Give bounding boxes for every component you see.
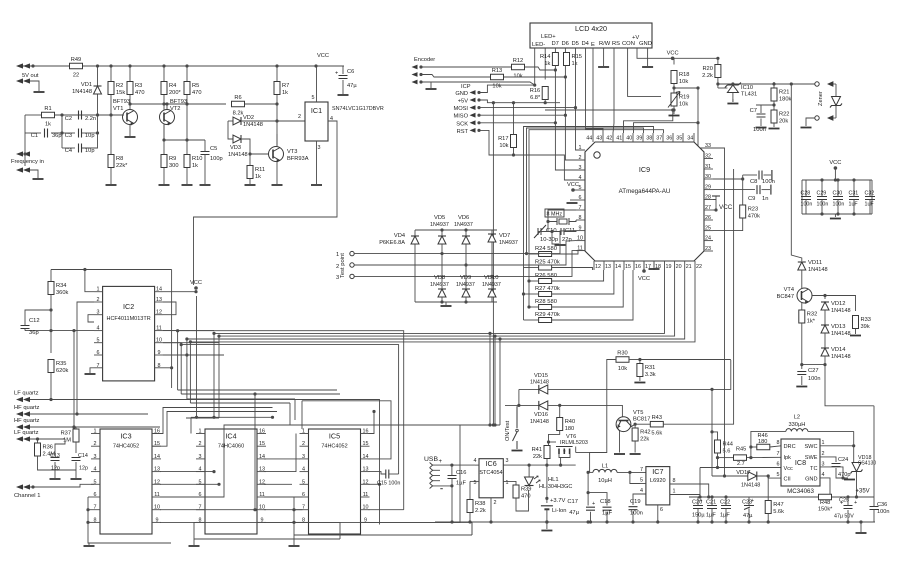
svg-text:1: 1 [822,440,825,446]
svg-text:SWE: SWE [805,455,818,461]
resistor R2 [108,82,125,97]
resistor R38 [467,500,486,515]
wire [82,132,98,134]
wire switch col top [518,389,520,405]
wire pin17 [643,261,645,271]
wire c11 [564,230,576,233]
svg-text:R33: R33 [861,317,871,323]
wire LED+ [544,48,546,80]
svg-text:VD5: VD5 [434,215,445,221]
svg-text:VD8: VD8 [434,275,445,281]
bus vert A [177,331,179,390]
ground [649,268,660,270]
terminal lower arrows [16,78,30,83]
junction [772,82,775,85]
svg-text:Frequency in: Frequency in [11,159,44,165]
svg-text:5: 5 [302,479,305,485]
svg-text:R34: R34 [56,283,66,289]
svg-text:1N4148: 1N4148 [741,483,760,489]
svg-text:7: 7 [640,467,643,473]
junction [710,430,713,433]
resistor R41 [532,446,550,461]
wire diode bottom bus [415,301,497,303]
wire bank top [802,179,872,181]
svg-text:VD14: VD14 [831,347,846,353]
svg-text:C8: C8 [750,179,757,185]
svg-text:38: 38 [646,136,652,142]
svg-text:R/W: R/W [599,41,611,47]
svg-text:C21: C21 [706,500,716,506]
svg-text:R48: R48 [820,500,830,506]
svg-text:22k: 22k [533,454,542,460]
svg-text:8: 8 [673,478,676,484]
svg-text:470: 470 [135,90,145,96]
svg-text:23: 23 [705,246,711,252]
wire [764,174,772,176]
svg-text:32: 32 [705,154,711,160]
junctions [716,456,719,469]
junction [696,121,699,124]
svg-text:D6: D6 [562,41,569,47]
wire mosfet source [560,458,562,466]
svg-text:+5V: +5V [458,99,468,105]
svg-text:35: 35 [676,136,682,142]
svg-text:9: 9 [579,226,582,232]
capacitor C3 [79,129,82,138]
svg-text:3: 3 [199,454,202,460]
wire [801,303,803,310]
junctions [749,445,752,459]
wire E col [592,48,594,133]
svg-text:1N4148: 1N4148 [808,267,828,273]
wire pin11 to bus [163,330,214,332]
svg-text:IC7: IC7 [652,467,663,476]
svg-text:C3: C3 [65,133,72,139]
wire [717,78,719,89]
wire [853,431,855,445]
ICP pin MOSI [470,105,481,110]
wire [590,512,592,522]
svg-text:22: 22 [696,264,702,270]
svg-text:4: 4 [640,488,643,494]
resistor R15 [564,53,582,68]
wire ladder busB [523,268,525,321]
junctions rail [450,520,548,523]
bus vert B [180,345,182,394]
ground [512,450,523,452]
svg-text:VT2: VT2 [170,106,180,112]
bus line B [181,345,398,474]
terminal Frequency in arrows [16,151,30,172]
resistor R9 [161,155,179,170]
svg-text:100n: 100n [833,202,845,208]
wire [204,155,206,185]
diode VD3 [233,135,241,143]
svg-text:22k*: 22k* [116,163,128,169]
wire [834,168,836,180]
wire R12 to R14 [525,67,556,70]
svg-text:E: E [591,42,595,48]
wire IC3 p12 bus [160,483,219,485]
svg-text:180: 180 [565,426,575,432]
wire IC3 gnd col [88,497,89,543]
bus vert E [186,339,188,399]
svg-text:24: 24 [705,236,711,242]
bus drop 1 [489,333,491,425]
svg-text:10µH: 10µH [598,478,612,484]
svg-text:R16: R16 [530,88,540,94]
svg-text:R43: R43 [652,415,662,421]
wire [773,123,775,127]
svg-text:2: 2 [822,451,825,457]
svg-text:R24 580: R24 580 [535,246,557,252]
svg-text:13: 13 [156,297,162,303]
TL431 IC10 [725,83,757,98]
svg-text:4: 4 [302,467,305,473]
junction [547,440,550,443]
wire pin4 down [74,331,94,427]
svg-text:R41: R41 [532,447,542,453]
svg-text:1N4937: 1N4937 [499,240,518,246]
svg-text:SCK: SCK [456,121,468,127]
junction [800,363,826,366]
svg-text:1: 1 [97,287,100,293]
wire [54,462,56,478]
ground [630,453,641,455]
wire [75,427,77,429]
svg-text:VT4: VT4 [784,287,794,293]
svg-text:C7: C7 [750,108,757,114]
wire R46 to pin8 [770,446,781,447]
svg-text:25: 25 [705,226,711,232]
ICP pin SCK [470,120,481,125]
svg-text:10k: 10k [492,84,501,90]
junction [859,520,862,523]
svg-text:1k: 1k [572,61,578,67]
wire VT6 gate [549,441,557,443]
svg-text:10k: 10k [499,143,508,149]
bus low4 [190,402,290,404]
IC9 top pins 44-34 [586,133,694,142]
wire VCC to R20 [673,58,718,65]
svg-text:47µ 50V: 47µ 50V [834,514,854,520]
svg-text:1k: 1k [544,61,550,67]
svg-text:74HC4060: 74HC4060 [218,444,244,450]
wire +5V drop [492,103,494,425]
VCC LCD [667,50,679,60]
svg-text:8: 8 [94,517,97,523]
wire emitter row [164,139,205,141]
ground [642,66,653,68]
svg-text:VD12: VD12 [831,301,846,307]
svg-text:R39: R39 [521,487,531,493]
wire [824,310,826,325]
wire to pin11 [552,251,585,254]
svg-text:R15: R15 [572,54,582,60]
svg-text:SS4130: SS4130 [858,461,876,467]
svg-text:C17: C17 [567,499,578,505]
wire pin3 loop [88,315,94,322]
svg-text:5: 5 [777,472,780,478]
resistor R37 [61,429,79,444]
resistor R16 [530,87,548,102]
svg-text:16: 16 [635,264,641,270]
svg-text:R14: R14 [540,54,550,60]
wire R43 to pin31 [663,169,733,424]
wire R41 bottom [546,459,548,466]
wire IC2 pin9 join [163,354,187,356]
svg-text:10k: 10k [679,102,688,108]
wire HF2 row [30,426,160,428]
wire VD16 row left [505,404,539,406]
svg-text:R42: R42 [640,430,650,436]
wire R47 col [767,476,769,501]
wire IC5 pin2 riser top [289,403,291,425]
junction [248,152,251,155]
svg-text:IC1: IC1 [311,106,322,115]
microcontroller IC9 [585,142,704,261]
wire [24,329,26,331]
wire [524,267,539,269]
wire C7 row [756,104,774,106]
inductor L2 [786,414,808,431]
svg-text:1: 1 [199,429,202,435]
svg-text:100n: 100n [762,179,775,185]
wire mid vert [254,394,256,510]
svg-text:1N4937: 1N4937 [454,222,473,228]
svg-text:C2: C2 [65,116,72,122]
wire VD15 row left [519,388,539,390]
svg-text:2: 2 [579,155,582,161]
svg-text:10: 10 [577,236,583,242]
svg-text:36p: 36p [29,330,39,336]
wire GND row [479,85,535,92]
VCC pin5 [567,182,579,192]
ground [289,545,300,547]
IC2 left pins [94,287,103,369]
svg-text:37: 37 [656,136,662,142]
wire R40 bottom [549,431,560,446]
wire [588,471,593,473]
wire RS col [613,48,614,133]
svg-text:10k: 10k [679,79,688,85]
svg-text:HL-304H3GC: HL-304H3GC [539,484,572,490]
wire IC4 p13 [264,434,296,472]
wire test row 2 [354,241,576,265]
wire xtal1 [548,210,576,222]
capacitor C22 [720,497,731,522]
ground [272,184,283,186]
svg-text:470k: 470k [748,214,760,220]
wire VT1 emitter [129,125,131,136]
capacitor C15 [386,470,389,479]
svg-text:2.7: 2.7 [737,461,745,467]
wire [276,66,278,82]
MOSFET VT6 [556,434,588,454]
wire to LCD LED- [431,82,535,85]
svg-text:IC5: IC5 [329,432,340,441]
capacitor C30 [833,180,845,214]
wire C17 col [587,472,589,505]
wire [465,265,467,289]
wire L2 right [808,430,854,432]
svg-text:11: 11 [363,492,369,498]
svg-text:1N4148: 1N4148 [243,122,263,128]
svg-text:R9: R9 [169,156,176,162]
wire pin2 SWE [820,457,836,462]
resistor R27 [535,286,560,297]
wire [853,446,855,462]
wire [491,230,493,234]
bus line D [219,270,675,336]
junction [628,471,631,474]
wire pin6 [570,199,576,201]
svg-text:Channel 1: Channel 1 [14,493,40,499]
wire [276,162,278,184]
svg-text:MOSI: MOSI [453,106,468,112]
IC3 left pins [91,429,100,524]
resistor R3 [127,82,145,97]
capacitor C21 [706,497,717,522]
svg-text:C4: C4 [65,148,72,154]
junction [638,358,641,361]
svg-text:IC2: IC2 [123,302,134,311]
wire [82,115,98,148]
IC8 pin numbers [777,440,825,478]
bus drop 2 [494,336,496,425]
svg-text:11: 11 [156,326,162,332]
svg-text:R36: R36 [43,445,53,451]
junction [790,82,793,85]
wire [824,356,826,365]
svg-text:IC6: IC6 [486,459,497,468]
svg-text:Test point: Test point [340,253,346,278]
wire [38,456,77,470]
wire VD17 to CII [757,476,781,478]
ground [844,479,855,481]
wire pin41 wrap [624,110,673,133]
svg-text:C6: C6 [347,69,354,75]
wire [743,174,757,176]
svg-text:11: 11 [154,492,160,498]
svg-text:VD6: VD6 [458,215,469,221]
wire [634,424,636,428]
wire [529,280,539,282]
svg-text:10k: 10k [513,74,522,80]
svg-text:8: 8 [579,215,582,221]
svg-text:20: 20 [676,264,682,270]
svg-text:4: 4 [94,467,97,473]
wire [513,148,515,156]
ground [71,478,82,480]
svg-text:LED-: LED- [532,42,545,48]
diode VD8 [438,289,446,297]
wire IC5 p12 [369,483,380,485]
svg-text:100n: 100n [877,509,889,515]
svg-text:3: 3 [336,275,339,281]
capacitor C16 [448,476,457,479]
ground [756,127,767,129]
svg-text:1n: 1n [762,196,768,202]
svg-text:2.2k: 2.2k [702,73,713,79]
svg-text:C30: C30 [833,191,843,197]
wire IC3 p16 row [152,408,273,434]
pin1 mark [594,152,600,158]
logic IC3 [100,429,152,534]
svg-text:R20: R20 [702,66,712,72]
svg-text:13: 13 [154,467,160,473]
LED HL1 [525,476,541,486]
svg-text:2: 2 [199,441,202,447]
junction [828,495,831,498]
wire bottom bus [802,364,825,366]
junctions 417 [195,416,274,419]
ground [541,530,552,532]
svg-text:VD1: VD1 [81,82,92,88]
svg-text:40: 40 [626,136,632,142]
wire IC3 p9 [160,522,340,539]
svg-text:6: 6 [777,462,780,468]
wire c13 top [55,439,65,456]
svg-text:HL1: HL1 [548,477,559,483]
svg-text:4: 4 [97,326,100,332]
svg-text:LF quartz: LF quartz [14,430,39,436]
svg-text:150k*: 150k* [818,507,833,513]
svg-text:1: 1 [506,480,509,486]
svg-text:7: 7 [579,205,582,211]
wire Vcc pin6 row [700,467,781,469]
svg-text:L2: L2 [794,414,800,420]
capacitor C12 [21,326,30,329]
resistor R14 [540,53,558,68]
svg-text:5: 5 [312,95,315,101]
svg-text:74HC4052: 74HC4052 [321,444,347,450]
resistor R43 [650,415,663,437]
zener DUT arrows [828,82,836,120]
svg-text:2.2k: 2.2k [475,508,486,514]
ground [106,184,117,186]
capacitor C23 [742,497,754,522]
svg-text:R29 470k: R29 470k [535,312,560,318]
wire pin8 out [670,484,709,497]
IC9 left pins 1-11 [576,145,585,252]
junction [49,398,52,401]
wire ladder busA [528,254,530,307]
junction [525,252,528,255]
svg-text:VD4: VD4 [394,233,405,239]
resistor R22 [771,110,789,125]
wire IC1 out [194,121,338,285]
wire [639,377,641,382]
IC5 left pins [300,429,309,524]
wire [576,452,590,454]
wire D4 col [586,48,604,133]
test point pin 2 [350,263,354,267]
wire [760,105,762,113]
junction [275,119,278,122]
svg-text:Encoder: Encoder [414,57,435,63]
svg-text:2: 2 [97,297,100,303]
LCD module header [530,23,652,48]
svg-text:470: 470 [521,494,531,500]
svg-text:C15 100n: C15 100n [377,481,400,487]
svg-text:LCD 4x20: LCD 4x20 [575,24,607,33]
svg-text:1k*: 1k* [807,319,816,325]
VCC IC2 [190,280,202,290]
svg-text:VCC: VCC [638,276,650,282]
junction [852,444,855,447]
wire C12 row [25,330,74,332]
